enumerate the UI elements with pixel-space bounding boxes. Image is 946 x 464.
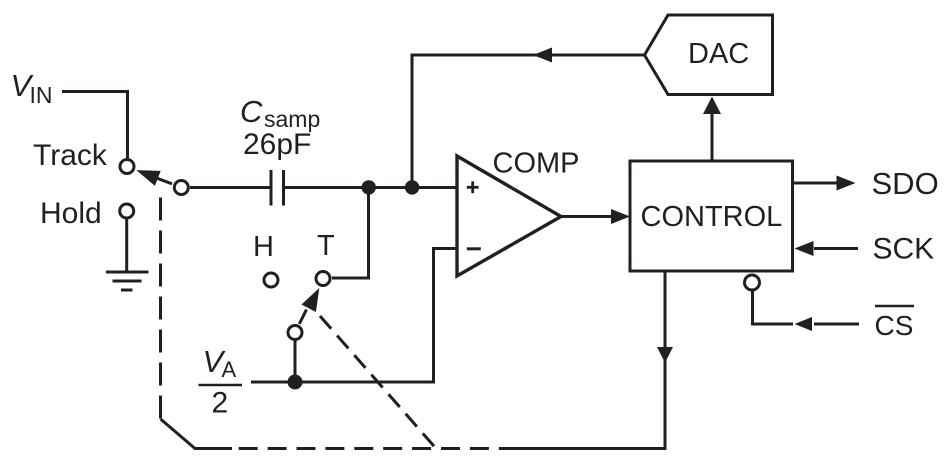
- arrowhead switch lever T: [302, 288, 320, 312]
- svg-text:SCK: SCK: [873, 233, 935, 266]
- contact circle CS on control: [745, 275, 760, 290]
- wire SCK: [814, 247, 858, 250]
- wire CS: [753, 291, 794, 325]
- svg-text:CONTROL: CONTROL: [641, 201, 783, 233]
- arrowhead comparator output right: [611, 209, 630, 224]
- arrowhead switch lever track: [136, 170, 160, 186]
- svg-text:2: 2: [212, 387, 229, 420]
- contact circle T: [316, 272, 330, 286]
- arrowhead control bottom down: [657, 347, 673, 363]
- wire Csamp to comparator: [285, 186, 457, 189]
- arrowhead SCK left: [795, 241, 814, 256]
- contact circle Track: [120, 160, 134, 174]
- arrowhead DAC feedback left: [533, 48, 552, 63]
- arrowhead into DAC up: [703, 97, 721, 115]
- wire DAC feedback: node B up and right to DAC vertex: [412, 55, 645, 188]
- comparator U1 COMP: [457, 156, 561, 276]
- contact circle switch pole 2: [288, 326, 302, 340]
- wire control bottom down and left (solid part): [514, 271, 665, 449]
- contact circle switch pole: [174, 181, 188, 195]
- node dot B: [405, 180, 419, 194]
- switch lever H/T: [299, 310, 306, 325]
- arrowhead CS left: [795, 317, 813, 331]
- comparator minus: [467, 247, 481, 250]
- svg-text:T: T: [317, 230, 335, 262]
- svg-text:Track: Track: [33, 139, 108, 172]
- wire lower switch circle to VA/2 node: [294, 341, 297, 383]
- dashed control line to track/hold switch: [159, 198, 162, 420]
- capacitor Csamp 26pF: [270, 170, 273, 206]
- svg-text:CS: CS: [875, 310, 914, 341]
- node dot A: [362, 180, 376, 194]
- svg-text:COMP: COMP: [493, 148, 580, 180]
- arrowhead SDO right: [837, 176, 856, 191]
- wire hold contact to ground: [125, 219, 128, 273]
- svg-text:C: C: [240, 94, 263, 129]
- node dot VA/2: [288, 375, 303, 390]
- svg-text:DAC: DAC: [688, 38, 749, 70]
- switch lever track/hold: [156, 178, 172, 184]
- wire main horizontal left of Csamp: [190, 186, 270, 189]
- svg-text:26pF: 26pF: [243, 128, 311, 161]
- contact circle H: [264, 273, 278, 287]
- svg-text:A: A: [222, 357, 237, 382]
- dashed control line to H/T switch: [320, 316, 437, 449]
- wire control to DAC: [711, 112, 714, 161]
- wire node A down to T contact: [332, 188, 369, 279]
- DAC block: [645, 15, 773, 95]
- ground: [106, 271, 149, 274]
- wire VIN to track switch: [62, 92, 128, 159]
- svg-text:H: H: [253, 231, 274, 263]
- svg-text:SDO: SDO: [872, 166, 939, 201]
- wire comparator minus input from VA/2: [251, 249, 457, 383]
- wire comparator output to control: [561, 215, 613, 218]
- contact circle Hold: [120, 204, 134, 218]
- wire SDO: [793, 182, 840, 185]
- svg-text:IN: IN: [30, 82, 53, 108]
- control block: [630, 161, 793, 271]
- svg-text:Hold: Hold: [40, 197, 102, 230]
- comparator plus: [467, 181, 479, 193]
